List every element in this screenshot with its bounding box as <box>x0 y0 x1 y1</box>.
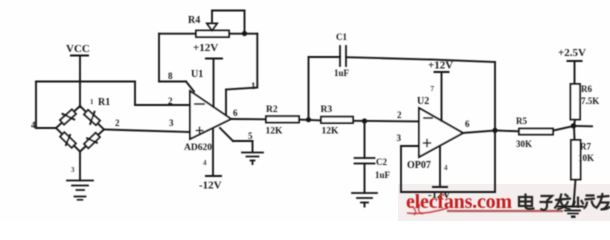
wire OP07 output to R5 <box>463 131 495 134</box>
wire OP07 pin3 reference <box>401 146 495 192</box>
-12V supply to AD620 pin4 <box>206 128 221 176</box>
svg-text:-12V: -12V <box>199 180 222 192</box>
char zi <box>540 196 553 210</box>
resistor R6 <box>571 84 581 126</box>
svg-text:R3: R3 <box>321 105 333 115</box>
svg-text:+2.5V: +2.5V <box>558 47 586 59</box>
watermark chinese 电子发烧友 <box>519 193 610 210</box>
svg-text:10K: 10K <box>578 153 594 163</box>
capacitor C2 <box>355 121 375 193</box>
svg-text:4: 4 <box>203 159 207 167</box>
-12V supply to OP07 pin4 <box>433 146 447 187</box>
potentiometer R4 <box>196 11 245 38</box>
+2.5V supply terminal <box>568 61 582 84</box>
resistor R3 <box>321 117 353 123</box>
ground under C2 <box>352 193 377 207</box>
svg-text:3: 3 <box>169 118 174 128</box>
wire feedback down to output node <box>494 62 496 192</box>
svg-text:+12V: +12V <box>193 42 218 54</box>
char fa <box>555 194 572 210</box>
svg-text:30K: 30K <box>516 139 532 149</box>
VCC supply terminal <box>71 56 88 108</box>
op-amp U1 AD620 <box>190 91 231 139</box>
svg-text:C2: C2 <box>376 157 387 167</box>
svg-text:VCC: VCC <box>66 43 90 55</box>
svg-text:R2: R2 <box>266 105 278 115</box>
svg-text:U2: U2 <box>417 96 429 107</box>
wire bridge left arm to AD620 pin2 <box>36 82 190 129</box>
+12V supply to AD620 pin7 <box>206 59 222 108</box>
svg-text:6: 6 <box>465 119 470 129</box>
svg-text:+12V: +12V <box>428 60 453 72</box>
char shao <box>573 196 597 209</box>
ground under bridge <box>67 152 93 200</box>
svg-text:12K: 12K <box>266 127 284 137</box>
svg-text:4: 4 <box>444 164 448 172</box>
wire bridge right arm to AD620 pin3 <box>104 130 190 133</box>
junction node B <box>362 118 367 123</box>
svg-text:R6: R6 <box>581 84 592 94</box>
svg-text:2: 2 <box>168 96 173 106</box>
svg-text:12K: 12K <box>322 127 340 137</box>
svg-text:7.5K: 7.5K <box>581 96 599 106</box>
junction pot wiper node <box>242 31 247 36</box>
wire R3 to OP07 pin2 <box>353 120 419 123</box>
wire node A up to C1 <box>308 57 310 120</box>
wire pot right to AD620 pin1 <box>226 34 257 115</box>
svg-text:R4: R4 <box>188 15 200 26</box>
ground under R7 <box>558 207 583 218</box>
svg-text:1: 1 <box>251 81 256 91</box>
svg-text:4: 4 <box>31 120 36 130</box>
svg-text:R7: R7 <box>580 142 591 152</box>
svg-text:AD620: AD620 <box>184 143 212 153</box>
wire output stub <box>574 125 593 127</box>
junction output node <box>492 128 497 133</box>
junction divider node <box>571 123 576 128</box>
wire R2 to R3 <box>299 119 321 122</box>
wire AD620 output to R2 <box>231 118 266 120</box>
svg-text:R1: R1 <box>98 97 110 108</box>
bridge sensor R1 (wheatstone bridge) <box>56 106 104 152</box>
svg-text:2: 2 <box>115 118 120 128</box>
svg-text:1uF: 1uF <box>334 68 350 78</box>
svg-text:7: 7 <box>431 85 435 93</box>
svg-text:1: 1 <box>90 98 94 106</box>
svg-text:6: 6 <box>233 108 238 118</box>
char you <box>596 193 610 210</box>
+12V supply to OP07 pin7 <box>435 72 449 121</box>
char dian <box>519 194 535 210</box>
resistor R2 <box>266 116 299 122</box>
capacitor C1 feedback <box>309 46 496 66</box>
resistor R5 <box>519 129 553 135</box>
junction node A <box>306 117 311 122</box>
watermark elecfans.com <box>406 191 563 215</box>
svg-text:3: 3 <box>397 133 402 143</box>
wire R5 to divider node <box>553 126 574 131</box>
wire pot left to AD620 pin8 <box>159 34 196 92</box>
svg-text:3: 3 <box>71 166 75 174</box>
svg-text:8: 8 <box>168 71 173 81</box>
svg-text:elecfans.com: elecfans.com <box>406 191 512 213</box>
svg-text:R5: R5 <box>516 116 527 126</box>
AD620 pin5 to ground <box>220 128 263 164</box>
op-amp U2 OP07 <box>419 108 463 157</box>
svg-text:U1: U1 <box>191 69 203 80</box>
svg-text:5: 5 <box>248 131 253 141</box>
resistor R7 <box>571 126 581 206</box>
svg-text:1uF: 1uF <box>375 170 391 180</box>
svg-text:2: 2 <box>397 110 402 120</box>
svg-text:OP07: OP07 <box>407 160 431 171</box>
svg-text:C1: C1 <box>336 32 347 42</box>
